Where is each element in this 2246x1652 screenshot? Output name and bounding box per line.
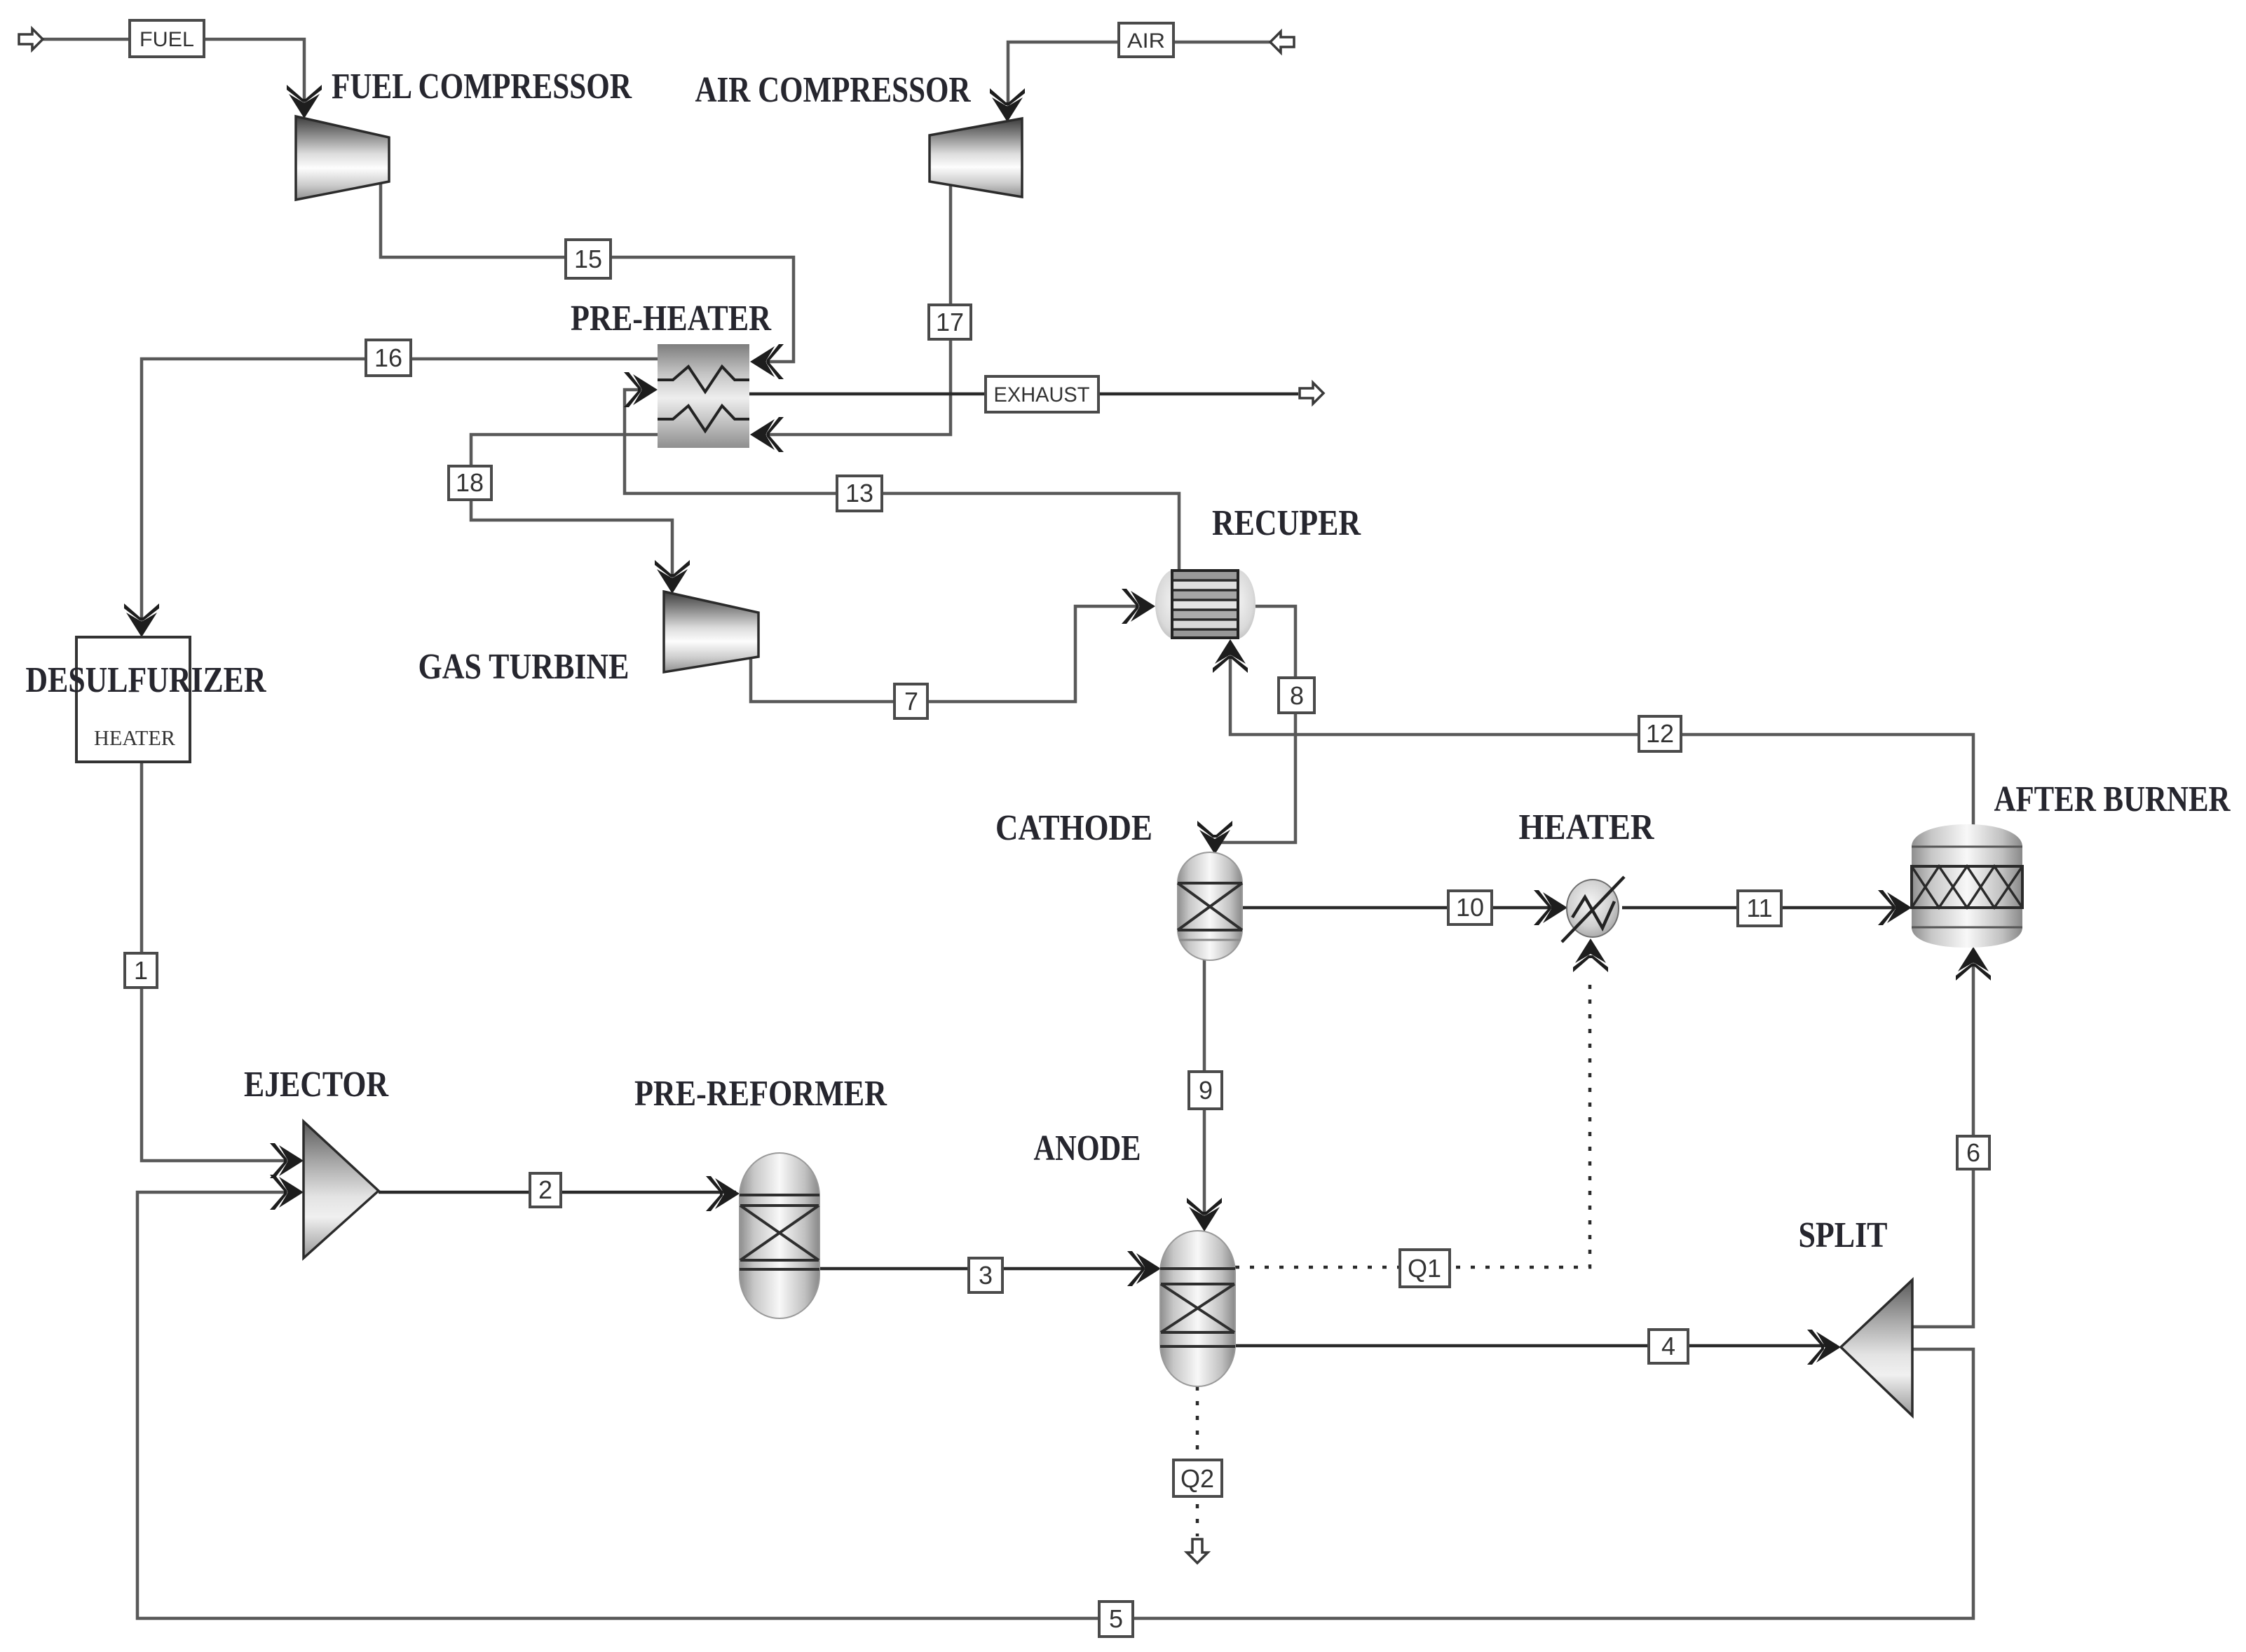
hollow arrow Q2 out — [1187, 1539, 1208, 1563]
split — [1841, 1280, 1912, 1416]
svg-text:HEATER: HEATER — [94, 725, 175, 750]
label 11 — [1738, 891, 1781, 926]
wire stream 7 gas turbine to recuper — [751, 606, 1151, 702]
svg-text:EXHAUST: EXHAUST — [994, 383, 1090, 407]
heater exchanger circle — [1562, 877, 1624, 942]
label 13 — [837, 476, 882, 511]
label Q2 — [1173, 1460, 1222, 1496]
after burner vessel — [1912, 824, 2022, 948]
label 1 — [125, 953, 157, 988]
svg-text:11: 11 — [1746, 894, 1772, 922]
svg-text:PRE-REFORMER: PRE-REFORMER — [634, 1074, 887, 1114]
svg-text:GAS TURBINE: GAS TURBINE — [418, 647, 629, 687]
svg-text:10: 10 — [1456, 893, 1484, 922]
wire Q1 anode heat to heater (dotted) — [1235, 976, 1590, 1267]
label 4 — [1649, 1330, 1688, 1363]
wire Q2 anode heat out (dotted) — [1196, 1386, 1199, 1536]
svg-text:RECUPER: RECUPER — [1212, 503, 1361, 543]
svg-text:1: 1 — [134, 956, 148, 985]
arrow into after burner bottom (6) — [1956, 947, 1991, 981]
svg-text:2: 2 — [538, 1175, 552, 1204]
pre-reformer vessel — [740, 1153, 819, 1318]
ejector — [304, 1121, 379, 1258]
svg-text:CATHODE: CATHODE — [995, 808, 1152, 848]
svg-text:4: 4 — [1661, 1332, 1675, 1360]
svg-text:8: 8 — [1290, 681, 1304, 710]
wire stream 15 fuel compressor to pre-heater — [381, 184, 794, 362]
cathode vessel — [1178, 852, 1242, 960]
svg-text:AIR: AIR — [1127, 29, 1165, 53]
svg-text:PRE-HEATER: PRE-HEATER — [571, 299, 772, 339]
arrow into anode left (3) — [1127, 1251, 1161, 1286]
wire stream 17 air compressor to pre-heater — [757, 185, 951, 435]
svg-text:Q1: Q1 — [1408, 1254, 1441, 1283]
arrow into gas turbine (18) — [655, 560, 690, 594]
wire stream 11 heater to after burner — [1622, 906, 1908, 910]
arrow into ejector upper (1) — [270, 1143, 304, 1178]
pre-heater exchanger — [658, 344, 749, 448]
arrow into ejector lower (5) — [270, 1175, 304, 1210]
svg-text:5: 5 — [1109, 1604, 1123, 1633]
wire stream 4 anode to split — [1235, 1344, 1837, 1348]
arrow into recuper bottom (12) — [1213, 639, 1248, 673]
wire stream 2 ejector to pre-reformer — [379, 1191, 736, 1194]
label Q1 — [1400, 1250, 1450, 1287]
wire stream 6 split to after burner — [1912, 950, 1973, 1327]
wire stream 3 pre-reformer to anode — [819, 1267, 1157, 1271]
wire AIR inlet to air compressor — [1008, 42, 1270, 118]
label AIR — [1119, 23, 1173, 57]
arrow into split apex (4) — [1807, 1330, 1841, 1365]
svg-text:EJECTOR: EJECTOR — [244, 1065, 389, 1105]
wire stream 1 desulfurizer to ejector — [142, 762, 300, 1161]
svg-text:6: 6 — [1966, 1138, 1980, 1167]
arrow into fuel compressor — [287, 85, 322, 118]
wire stream 10 cathode to heater — [1242, 906, 1563, 910]
arrow into pre-heater middle left (13) — [624, 372, 658, 407]
wire stream 5 split to ejector — [137, 1192, 1973, 1618]
label 3 — [969, 1258, 1002, 1292]
svg-text:AFTER BURNER: AFTER BURNER — [1994, 779, 2231, 819]
svg-text:13: 13 — [845, 479, 873, 507]
air compressor — [930, 118, 1022, 197]
wire stream 16 pre-heater to desulfurizer — [142, 359, 658, 634]
wire stream 18 pre-heater to gas turbine — [471, 435, 672, 589]
label 8 — [1279, 678, 1314, 713]
desulfurizer block — [76, 637, 190, 762]
anode vessel — [1160, 1231, 1235, 1386]
svg-text:FUEL: FUEL — [139, 28, 194, 51]
hollow arrow AIR feed — [1270, 32, 1294, 53]
svg-text:16: 16 — [374, 343, 402, 372]
svg-text:12: 12 — [1646, 719, 1674, 748]
svg-text:7: 7 — [904, 687, 918, 716]
label 10 — [1448, 891, 1492, 924]
arrow into pre-heater top right (15) — [750, 344, 784, 379]
wire stream 13 recuper to pre-heater — [625, 390, 1179, 569]
svg-text:3: 3 — [979, 1261, 993, 1290]
wire FUEL inlet to fuel compressor — [42, 39, 304, 114]
label FUEL — [130, 20, 204, 57]
label 7 — [894, 684, 927, 718]
svg-text:9: 9 — [1199, 1076, 1213, 1105]
svg-text:AIR COMPRESSOR: AIR COMPRESSOR — [695, 70, 972, 110]
fuel compressor — [296, 116, 389, 200]
label EXHAUST — [986, 376, 1098, 412]
wire stream 8 recuper to cathode — [1215, 606, 1295, 851]
arrow into anode top (9) — [1187, 1198, 1222, 1231]
hollow arrow FUEL feed — [19, 29, 43, 50]
arrow into cathode top (8) — [1197, 821, 1232, 854]
wire stream 9 cathode to anode — [1203, 960, 1206, 1227]
gas turbine — [664, 592, 758, 672]
label 5 — [1099, 1602, 1133, 1637]
arrow into heater bottom (Q1) — [1573, 938, 1608, 972]
svg-text:18: 18 — [456, 468, 484, 497]
label 9 — [1189, 1072, 1222, 1109]
svg-text:Q2: Q2 — [1180, 1464, 1214, 1493]
label 2 — [530, 1173, 561, 1207]
svg-text:15: 15 — [574, 245, 602, 273]
label 6 — [1957, 1136, 1989, 1169]
svg-text:FUEL COMPRESSOR: FUEL COMPRESSOR — [332, 67, 632, 107]
arrow into air compressor — [990, 88, 1025, 122]
arrow into pre-heater bottom right (17) — [750, 417, 784, 452]
label 12 — [1639, 716, 1681, 751]
arrow into heater left (10) — [1534, 890, 1567, 925]
arrow into pre-reformer (2) — [706, 1176, 740, 1211]
svg-text:HEATER: HEATER — [1519, 807, 1655, 847]
svg-text:SPLIT: SPLIT — [1799, 1215, 1888, 1255]
svg-text:17: 17 — [936, 308, 964, 336]
label 16 — [366, 340, 411, 376]
label 15 — [566, 240, 611, 278]
hollow arrow EXHAUST out — [1300, 383, 1323, 404]
svg-text:ANODE: ANODE — [1034, 1128, 1141, 1168]
label 17 — [929, 305, 971, 339]
recuper heat exchanger — [1155, 569, 1255, 639]
arrow into after burner left (11) — [1878, 890, 1912, 925]
wire EXHAUST outlet — [749, 392, 1298, 396]
wire stream 12 after burner to recuper — [1230, 643, 1973, 828]
arrow into recuper left (7) — [1122, 589, 1155, 624]
arrow into desulfurizer top (16) — [124, 603, 159, 637]
label 18 — [449, 466, 491, 500]
svg-text:DESULFURIZER: DESULFURIZER — [26, 660, 267, 700]
